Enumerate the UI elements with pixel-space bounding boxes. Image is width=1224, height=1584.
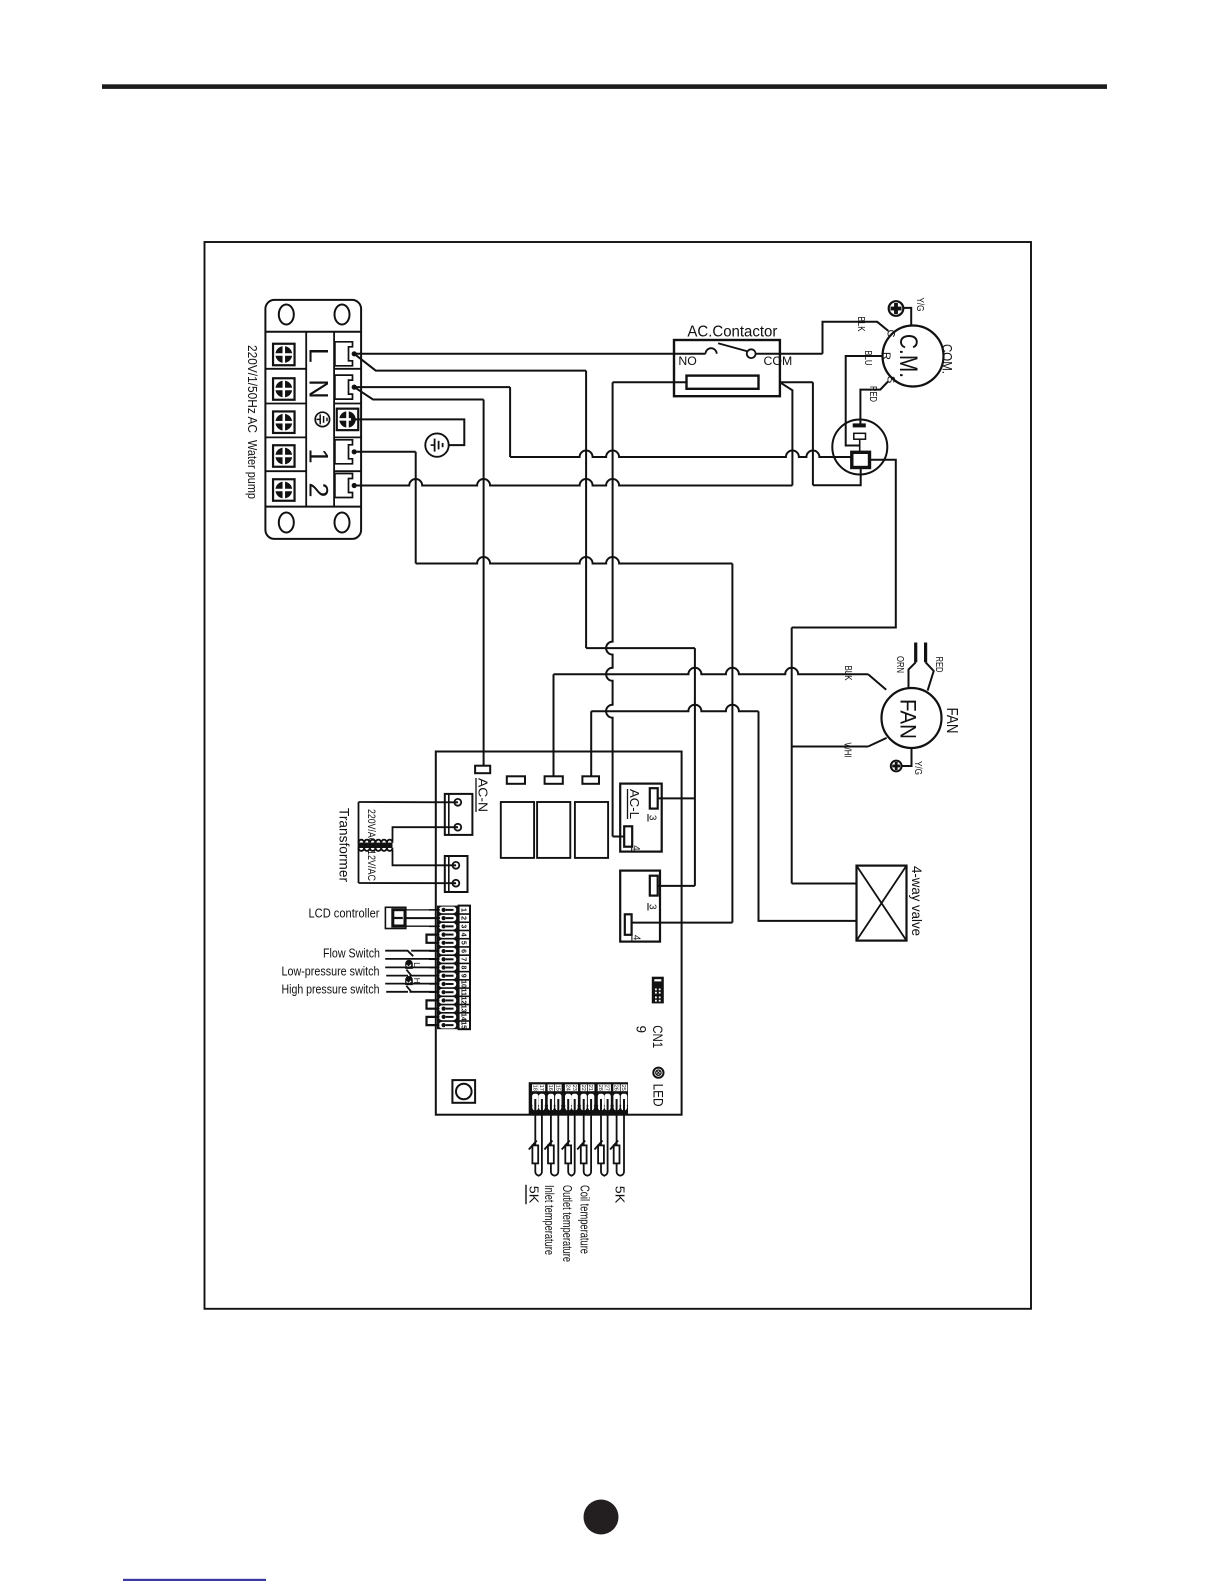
svg-text:LED: LED <box>650 1084 665 1107</box>
svg-text:AC.Contactor: AC.Contactor <box>687 324 777 341</box>
svg-text:AC-L: AC-L <box>627 789 642 819</box>
svg-text:LCD controller: LCD controller <box>309 907 380 921</box>
svg-text:6: 6 <box>460 949 467 953</box>
svg-text:9: 9 <box>634 1025 649 1033</box>
svg-text:21: 21 <box>587 1085 593 1091</box>
svg-text:N: N <box>303 379 333 399</box>
svg-text:5: 5 <box>460 941 467 945</box>
svg-text:ORN: ORN <box>894 656 906 673</box>
svg-text:Coil temperature: Coil temperature <box>577 1185 591 1254</box>
svg-text:14: 14 <box>460 1013 467 1021</box>
svg-text:BLK: BLK <box>855 317 867 332</box>
svg-text:BLU: BLU <box>862 351 874 366</box>
svg-text:COM.: COM. <box>939 344 954 374</box>
svg-text:25: 25 <box>620 1085 626 1091</box>
svg-text:C: C <box>884 330 896 338</box>
svg-text:AC-N: AC-N <box>476 778 491 812</box>
svg-text:1: 1 <box>460 908 467 912</box>
svg-text:Flow Switch: Flow Switch <box>323 947 380 961</box>
svg-text:23: 23 <box>571 1085 577 1091</box>
svg-text:High pressure switch: High pressure switch <box>282 983 380 997</box>
svg-text:5K: 5K <box>613 1186 627 1204</box>
svg-text:5K: 5K <box>526 1186 540 1204</box>
svg-text:FAN: FAN <box>943 708 960 734</box>
svg-text:CN1: CN1 <box>650 1025 665 1048</box>
svg-text:13: 13 <box>460 1005 467 1013</box>
svg-text:3: 3 <box>460 924 467 928</box>
svg-text:27: 27 <box>604 1085 610 1091</box>
svg-text:RED: RED <box>933 657 945 673</box>
svg-text:24: 24 <box>564 1085 570 1091</box>
svg-text:NO: NO <box>678 356 696 368</box>
svg-text:8: 8 <box>460 966 467 970</box>
svg-text:C.M.: C.M. <box>894 334 922 378</box>
svg-text:18: 18 <box>531 1085 537 1091</box>
svg-text:Y/G: Y/G <box>912 761 924 775</box>
svg-text:RED: RED <box>867 386 879 402</box>
svg-text:28: 28 <box>597 1085 603 1091</box>
svg-text:COM: COM <box>764 356 793 368</box>
svg-text:1: 1 <box>303 448 333 463</box>
svg-text:2: 2 <box>460 916 467 920</box>
svg-text:12V/AC: 12V/AC <box>365 850 377 881</box>
svg-text:Y/G: Y/G <box>914 298 926 312</box>
svg-text:BLK: BLK <box>842 666 854 681</box>
svg-text:S: S <box>884 376 896 383</box>
svg-text:Outlet temperature: Outlet temperature <box>560 1185 574 1262</box>
svg-text:Transformer: Transformer <box>337 808 353 882</box>
svg-text:12: 12 <box>460 997 467 1005</box>
svg-text:4-way valve: 4-way valve <box>909 866 924 936</box>
svg-text:10: 10 <box>460 980 467 988</box>
svg-text:15: 15 <box>460 1021 467 1029</box>
svg-text:17: 17 <box>538 1085 544 1091</box>
svg-text:26: 26 <box>613 1085 619 1091</box>
svg-text:7: 7 <box>460 957 467 961</box>
svg-text:WHI: WHI <box>841 743 853 758</box>
svg-text:Inlet temperature: Inlet temperature <box>542 1185 556 1255</box>
svg-text:220V/1/50Hz AC: 220V/1/50Hz AC <box>245 345 260 433</box>
svg-text:11: 11 <box>460 988 467 996</box>
svg-text:L: L <box>303 348 333 363</box>
svg-text:2: 2 <box>303 482 333 497</box>
svg-text:FAN: FAN <box>896 699 921 739</box>
svg-text:15: 15 <box>554 1085 560 1091</box>
svg-text:9: 9 <box>460 974 467 978</box>
svg-text:22: 22 <box>580 1085 586 1091</box>
svg-text:4: 4 <box>460 933 467 937</box>
svg-text:220V/AC: 220V/AC <box>365 809 377 844</box>
svg-text:Low-pressure switch: Low-pressure switch <box>282 965 380 979</box>
svg-text:16: 16 <box>547 1085 553 1091</box>
svg-text:Water pump: Water pump <box>245 440 260 499</box>
